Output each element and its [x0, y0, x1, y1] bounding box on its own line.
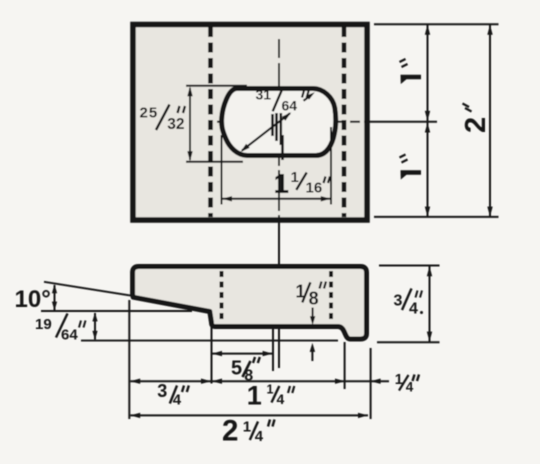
label 1/4 right — [395, 372, 414, 394]
svg-text:1: 1 — [274, 168, 290, 199]
dim 1-1/16 extension lines — [221, 135, 223, 205]
svg-text:2: 2 — [222, 415, 238, 448]
hole in top view — [222, 89, 336, 156]
10 degree horizontal reference line — [41, 310, 192, 312]
10 degree slope extension line — [44, 282, 131, 296]
center marks at hole center — [273, 113, 283, 160]
label 1/8 — [295, 282, 318, 309]
10 degree double arrow — [54, 285, 56, 310]
svg-text:64: 64 — [61, 327, 78, 344]
hidden line (step) left, top view — [208, 27, 213, 217]
horizontal centerline — [217, 121, 440, 123]
dim 2 inch dimension line — [489, 25, 491, 217]
19/64 double arrow — [94, 313, 96, 340]
svg-text:31: 31 — [256, 87, 272, 103]
front view outline — [133, 267, 367, 340]
label 25/32 — [140, 105, 185, 134]
svg-text:1: 1 — [243, 419, 251, 436]
label 5/8 — [231, 357, 253, 384]
svg-text:16: 16 — [306, 180, 323, 197]
3/4 right dimension line — [429, 266, 431, 342]
1/8 dimension arrows — [312, 308, 314, 318]
label 3/4 right — [394, 293, 419, 318]
3/4 right extension lines — [379, 265, 440, 267]
label 31/64 — [256, 87, 298, 114]
svg-text:3: 3 — [394, 293, 403, 310]
svg-text:19: 19 — [35, 316, 52, 333]
svg-text:4: 4 — [255, 428, 264, 445]
dim 25/32 extension lines — [186, 85, 247, 87]
top view plate outline — [133, 25, 367, 221]
svg-text:10°: 10° — [15, 286, 51, 313]
19/64 lower reference line — [81, 340, 338, 342]
svg-text:32: 32 — [167, 116, 184, 133]
vertical centerline — [278, 39, 280, 368]
5/8 dimension line — [212, 353, 273, 355]
radius leader 31/64 diagonal — [242, 113, 290, 150]
svg-text:3: 3 — [157, 381, 167, 401]
svg-text:8: 8 — [309, 289, 319, 309]
label 1 inch top (rotated) — [400, 59, 422, 84]
svg-text:2: 2 — [460, 117, 492, 133]
bottom extension lines — [128, 300, 130, 419]
label 2 inch (rotated) — [460, 104, 492, 134]
dim 1+1 dimension line — [427, 25, 429, 217]
svg-text:4: 4 — [277, 391, 285, 407]
hidden line (hole) left, front view — [220, 271, 224, 324]
svg-text:25: 25 — [140, 105, 159, 122]
label 3/4 bottom — [157, 381, 181, 409]
short leader arrow to top-right hole corner — [304, 96, 311, 101]
hidden line (hole) right, front view — [329, 271, 333, 324]
svg-text:1: 1 — [291, 169, 299, 186]
chained dimension line 3/4, 1-1/4, 1/4 — [130, 380, 389, 382]
hidden line (lip) right, top view — [342, 27, 347, 217]
dim 1-1/16 dimension line — [222, 198, 331, 200]
svg-text:4: 4 — [406, 379, 414, 394]
dim 2-1/4 dimension line — [130, 414, 368, 416]
right side extension lines — [374, 23, 499, 25]
svg-text:4: 4 — [409, 301, 418, 318]
dim 25/32 dimension line — [189, 88, 191, 160]
label 19/64 — [35, 316, 78, 344]
svg-text:64: 64 — [282, 98, 298, 114]
svg-text:5: 5 — [231, 357, 242, 379]
svg-text:1: 1 — [267, 383, 274, 397]
svg-text:1: 1 — [247, 380, 262, 410]
label 1 inch bottom (rotated) — [400, 155, 422, 180]
